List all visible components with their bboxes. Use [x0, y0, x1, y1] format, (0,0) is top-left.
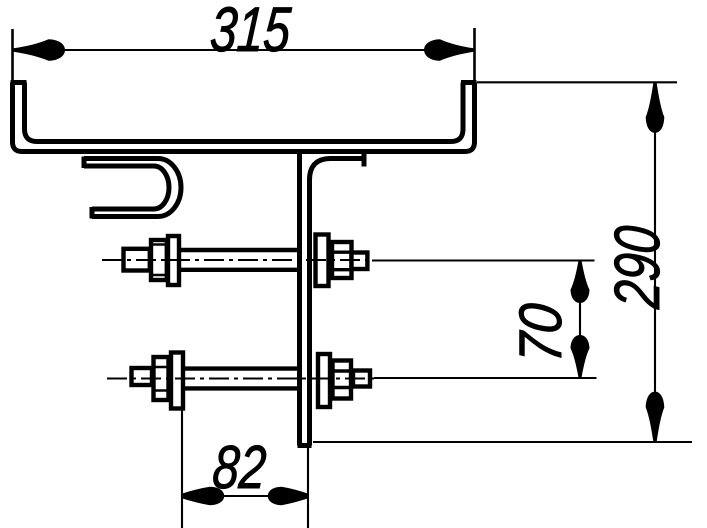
Z-bracket plate: flange end cap [362, 153, 367, 167]
bolt B2: left protruding thread end [132, 368, 153, 385]
dimension 290: top extension line [477, 81, 677, 83]
bolt B1: right protruding thread end [352, 253, 368, 270]
dimension 290: lower arrowhead [646, 392, 665, 442]
svg-text:82: 82 [211, 432, 269, 501]
J-hook clip: upper strip end cap [82, 157, 87, 169]
dimension 290: value label [602, 223, 674, 311]
J-hook clip: lower strip end cap [90, 207, 95, 219]
svg-text:290: 290 [602, 223, 674, 311]
dimension 70: upper arrowhead [571, 261, 590, 303]
dimension 82: left arrowhead [182, 487, 224, 505]
bolt B1: centreline extension to 70-dim [372, 259, 595, 261]
Z-bracket plate: left edge line [297, 152, 302, 446]
dimension 70: value label [507, 301, 574, 364]
svg-text:315: 315 [208, 0, 294, 64]
bolt B1: left protruding thread end [124, 249, 150, 271]
dimension 315: left arrowhead [13, 39, 66, 61]
bolt B2: right protruding thread end [353, 371, 370, 387]
Z-bracket plate: bottom end cap [298, 443, 312, 448]
bolt B1: right nut chamfer lines [332, 252, 352, 270]
dimension 315: left extension line [11, 29, 14, 80]
bolt B1: left washer [168, 236, 179, 285]
bolt B1: centreline (dash-dot) [102, 259, 372, 261]
dimension 290: upper arrowhead [646, 83, 665, 133]
bolt B2: right nut [333, 361, 352, 399]
bolt B2: right nut chamfer lines [333, 371, 352, 388]
channel bracket: left lip top cap [11, 80, 27, 85]
bolt B1: right nut [332, 242, 352, 278]
bolt B2: left washer [171, 353, 183, 409]
dimension 290: dimension line [654, 82, 656, 442]
dimension 82: dimension line [182, 495, 308, 497]
dimension 82: right arrowhead [268, 487, 308, 505]
J-hook clip: outer contour [84, 159, 181, 217]
dimension 82: right extension line [307, 447, 309, 528]
bolt B2: right washer [318, 354, 330, 407]
channel bracket: outer contour [13, 83, 475, 152]
bolt B2: centreline extension to 70-dim [374, 377, 597, 379]
bolt B2: left nut chamfer lines [154, 367, 169, 391]
Z-bracket plate: right edge with top bend and flange [310, 159, 365, 446]
bolt B1: left nut [151, 240, 167, 280]
dimension 70: dimension line [579, 261, 581, 377]
dimension 290: bottom extension line [313, 441, 692, 443]
dimension 315: right extension line [473, 28, 476, 80]
bolt B2: left nut [154, 357, 169, 400]
dimension 82: value label [211, 432, 269, 501]
svg-text:70: 70 [507, 301, 574, 364]
channel bracket: inner contour [25, 83, 464, 142]
dimension 82: left extension line [181, 410, 183, 528]
bolt B2: shaft [183, 369, 300, 389]
bolt B2: centreline (dash-dot) [107, 378, 374, 380]
bolt B1: left nut chamfer lines [151, 245, 167, 276]
dimension 315: value label [208, 0, 294, 64]
bolt B1: shaft [179, 250, 300, 270]
bolt B1: right washer [316, 235, 329, 287]
dimension 70: lower arrowhead [571, 335, 590, 377]
channel bracket: right lip top cap [461, 80, 477, 85]
dimension 315: right arrowhead [424, 39, 474, 61]
J-hook clip: inner contour [84, 166, 169, 209]
dimension 315: dimension line [13, 49, 475, 51]
